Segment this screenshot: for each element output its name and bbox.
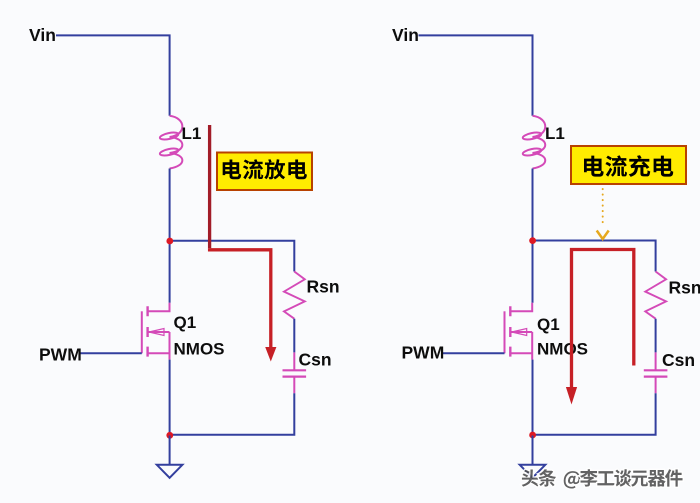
inductor L1 (left) [170, 116, 183, 169]
discharge current path arrow (left, red) [208, 125, 211, 248]
charge current path arrow (right, red U) [572, 250, 634, 389]
ground (left) [169, 436, 171, 465]
svg-text:NMOS: NMOS [537, 340, 588, 359]
wire: L1 bottom to switch node (right) [532, 169, 534, 241]
junction node bottom (left) [166, 432, 173, 439]
capacitor Csn (left) [293, 352, 295, 393]
wire: source of Q1 to bottom node (right) [532, 360, 534, 436]
ground (right) [532, 436, 534, 465]
wire: switch node to snubber branch (left) [170, 241, 295, 272]
resistor Rsn (right) [645, 272, 666, 319]
svg-text:Rsn: Rsn [307, 277, 340, 297]
junction node top (left) [166, 238, 173, 245]
svg-text:PWM: PWM [402, 343, 445, 363]
svg-text:Csn: Csn [299, 350, 332, 370]
wire: PWM to gate (left) [81, 352, 142, 354]
svg-text:L1: L1 [545, 124, 565, 143]
transistor Q1 NMOS (right) [504, 311, 506, 353]
watermark 头条@李工谈元器件 [522, 469, 683, 488]
junction node top (right) [529, 237, 536, 244]
transistor Q1 NMOS (left) [141, 311, 143, 353]
svg-text:L1: L1 [182, 124, 202, 143]
wire: switch node to snubber branch (right) [533, 241, 656, 272]
wire: Csn to bottom rail (right) [533, 393, 656, 435]
wire: Vin to top corner and down to L1 (left) [56, 35, 170, 115]
junction node bottom (right) [529, 432, 536, 439]
svg-text:Vin: Vin [29, 25, 56, 45]
wire: Rsn to Csn (right) [655, 319, 657, 353]
svg-text:Q1: Q1 [174, 313, 197, 332]
svg-text:Vin: Vin [392, 25, 419, 45]
capacitor Csn (right) [655, 352, 657, 393]
wire: L1 bottom to switch node (left) [169, 169, 171, 242]
wire: PWM to gate (right) [443, 352, 505, 354]
wire: Rsn to Csn (left) [293, 319, 295, 353]
dashed yellow pointer arrow [602, 189, 604, 228]
wire: Csn to bottom rail (left) [170, 393, 295, 435]
wire: source of Q1 to bottom node (left) [169, 360, 171, 436]
svg-text:Csn: Csn [662, 350, 695, 370]
wire: drain of Q1 to switch node (right) [532, 241, 534, 303]
svg-text:PWM: PWM [39, 345, 82, 365]
svg-text:NMOS: NMOS [174, 340, 225, 359]
resistor Rsn (left) [284, 272, 305, 319]
svg-text:Rsn: Rsn [669, 278, 700, 298]
wire: Vin to top corner and down to L1 (right) [419, 35, 533, 115]
inductor L1 (right) [533, 116, 546, 169]
wire: drain of Q1 to switch node (left) [169, 241, 171, 303]
annotation box 电流充电 (right) [571, 146, 686, 184]
svg-text:Q1: Q1 [537, 315, 560, 334]
annotation box 电流放电 (left) [217, 153, 312, 191]
